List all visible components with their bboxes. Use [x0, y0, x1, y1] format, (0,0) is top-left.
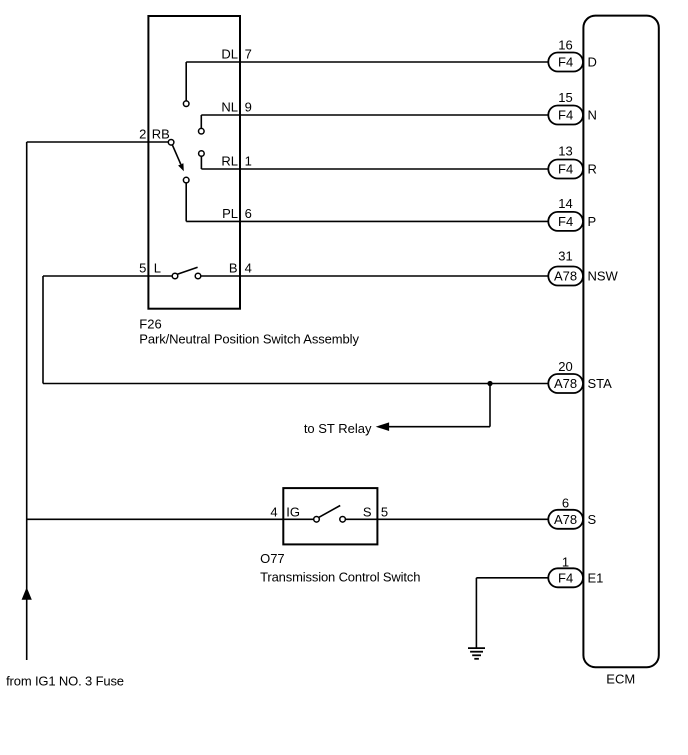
wire S from rail — [27, 518, 314, 520]
arrowhead to ST Relay — [376, 422, 389, 431]
svg-text:R: R — [588, 162, 597, 177]
rail arrowhead up — [22, 587, 32, 600]
svg-text:NL: NL — [221, 100, 238, 115]
ground bar 3 — [472, 654, 481, 656]
wire E1 horizontal — [476, 577, 548, 579]
svg-text:O77: O77 — [260, 551, 285, 566]
svg-text:F4: F4 — [558, 214, 573, 229]
wire NL horizontal — [201, 114, 548, 116]
contact RB — [168, 140, 174, 146]
wire RB — [27, 141, 169, 143]
svg-text:5: 5 — [381, 505, 388, 520]
rail 2 — [42, 276, 44, 384]
svg-text:Park/Neutral Position Switch A: Park/Neutral Position Switch Assembly — [139, 332, 359, 347]
switch blade RB arrowhead — [178, 163, 184, 171]
connector A78 pin 6 (S) — [548, 495, 596, 529]
svg-text:DL: DL — [221, 47, 238, 62]
connector A78 pin 31 (NSW) — [548, 249, 618, 286]
wire S to ECM — [345, 518, 548, 520]
connector F4 pin 13 (R) — [548, 144, 597, 179]
svg-text:6: 6 — [245, 206, 252, 221]
wire PL horizontal — [186, 220, 548, 222]
wire DL horizontal — [186, 61, 548, 63]
svg-text:NSW: NSW — [588, 269, 619, 284]
contact DL — [183, 101, 189, 107]
wire E1 vertical — [475, 578, 477, 648]
svg-text:A78: A78 — [554, 376, 577, 391]
svg-text:S: S — [588, 512, 597, 527]
contact L — [172, 273, 178, 279]
svg-text:IG: IG — [286, 505, 300, 520]
svg-text:2: 2 — [139, 127, 146, 142]
contact S5 — [340, 517, 346, 523]
svg-text:L: L — [154, 261, 161, 276]
svg-text:6: 6 — [562, 495, 569, 510]
svg-text:STA: STA — [588, 376, 613, 391]
svg-text:RL: RL — [221, 154, 238, 169]
svg-text:ECM: ECM — [606, 672, 635, 687]
svg-text:F4: F4 — [558, 162, 573, 177]
svg-text:N: N — [588, 108, 597, 123]
svg-text:A78: A78 — [554, 269, 577, 284]
switch box F26 — [148, 16, 240, 309]
connector A78 pin 20 (STA) — [548, 359, 612, 393]
contact NL — [199, 128, 205, 134]
svg-text:31: 31 — [558, 249, 572, 264]
contact B — [195, 273, 201, 279]
switch blade L-B — [177, 267, 197, 274]
svg-text:7: 7 — [245, 47, 252, 62]
svg-text:5: 5 — [139, 261, 146, 276]
svg-text:20: 20 — [558, 359, 572, 374]
wire NL vertical — [200, 115, 202, 128]
wire DL vertical — [185, 62, 187, 101]
contact IG — [314, 517, 320, 523]
ground bar 1 — [468, 647, 485, 649]
svg-text:F4: F4 — [558, 571, 573, 586]
wire RL vertical — [200, 156, 202, 169]
svg-text:F26: F26 — [139, 316, 161, 331]
svg-text:14: 14 — [558, 196, 572, 211]
switch box O77 — [283, 488, 377, 544]
wire RL horizontal — [201, 168, 548, 170]
svg-text:B: B — [229, 261, 238, 276]
svg-text:from IG1 NO. 3 Fuse: from IG1 NO. 3 Fuse — [6, 673, 124, 688]
connector F4 pin 16 (D) — [548, 38, 597, 72]
wire L row — [43, 275, 172, 277]
svg-text:P: P — [588, 214, 597, 229]
svg-text:RB: RB — [152, 127, 170, 142]
wire ST relay vertical — [489, 384, 491, 427]
connector F4 pin 1 (E1) — [548, 554, 603, 587]
svg-text:13: 13 — [558, 144, 572, 159]
svg-text:16: 16 — [558, 38, 572, 53]
svg-text:4: 4 — [245, 261, 252, 276]
connector F4 pin 14 (P) — [548, 196, 596, 231]
svg-text:E1: E1 — [588, 571, 604, 586]
contact RL — [199, 151, 205, 157]
svg-text:F4: F4 — [558, 108, 573, 123]
ground bar 4 — [474, 658, 479, 660]
left rail — [26, 142, 28, 660]
svg-text:A78: A78 — [554, 512, 577, 527]
svg-text:Transmission Control Switch: Transmission Control Switch — [260, 569, 420, 584]
svg-text:F4: F4 — [558, 55, 573, 70]
svg-text:D: D — [588, 55, 597, 70]
svg-text:1: 1 — [245, 154, 252, 169]
svg-text:PL: PL — [222, 206, 238, 221]
svg-text:S: S — [363, 505, 372, 520]
connector F4 pin 15 (N) — [548, 90, 597, 125]
svg-text:9: 9 — [245, 100, 252, 115]
svg-text:4: 4 — [270, 505, 277, 520]
wire PL vertical — [185, 183, 187, 222]
ECM box — [583, 16, 658, 668]
switch blade RB line — [172, 145, 181, 165]
contact PL — [183, 177, 189, 183]
wire ST relay horizontal — [389, 426, 490, 428]
junction dot — [487, 381, 492, 386]
wire STA — [43, 383, 548, 385]
wire B to NSW — [201, 275, 549, 277]
svg-text:to ST Relay: to ST Relay — [304, 421, 372, 436]
svg-text:15: 15 — [558, 90, 572, 105]
ground bar 2 — [470, 651, 483, 653]
svg-text:1: 1 — [562, 554, 569, 569]
switch blade O77 — [319, 506, 341, 518]
